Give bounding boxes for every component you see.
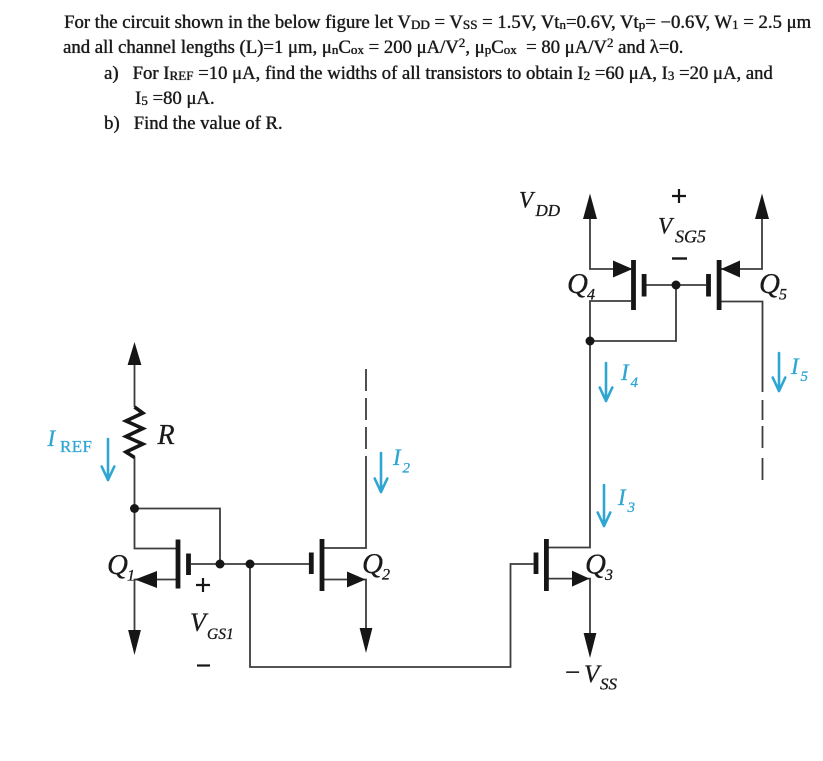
wire Q1 source lead	[135, 580, 179, 633]
svg-text:SS: SS	[600, 675, 618, 694]
transistor Q1 gate bar	[186, 554, 191, 576]
wire Q5 drain lead	[721, 302, 763, 393]
label I2	[392, 445, 411, 477]
transistor Q5 gate bar	[706, 274, 711, 297]
svg-text:I: I	[620, 360, 630, 385]
svg-text:I: I	[392, 445, 402, 470]
transistor Q2 source arrow	[347, 572, 366, 588]
current arrow I5	[773, 353, 786, 391]
wire Q2 drain lead	[322, 456, 366, 548]
wire Q5 source to VDD arrow	[721, 218, 762, 269]
wire resistor bottom to Q1 drain corner	[135, 457, 179, 549]
transistor Q3 source arrow	[572, 571, 590, 587]
label Q4	[567, 268, 595, 304]
svg-text:5: 5	[779, 287, 787, 304]
label IREF	[47, 426, 93, 456]
arrowhead up VDD left	[583, 194, 597, 220]
label R	[157, 420, 175, 451]
svg-text:4: 4	[631, 375, 639, 391]
transistor Q4 gate bar	[642, 274, 647, 297]
label VSG5	[658, 214, 706, 247]
wire Q4 drain lead	[590, 301, 631, 341]
transistor Q3 channel bar	[544, 539, 549, 591]
label Q5	[759, 268, 787, 304]
arrowhead down Q3 source to VSS	[584, 633, 597, 658]
transistor Q2 gate bar	[309, 553, 314, 575]
svg-text:R: R	[157, 420, 175, 451]
label Q3	[585, 549, 613, 585]
resistor R zigzag	[126, 407, 143, 458]
svg-text:1: 1	[127, 568, 135, 585]
arrowhead down Q2 source to VSS	[360, 628, 373, 653]
transistor Q3 gate bar	[534, 553, 539, 575]
svg-text:I: I	[790, 354, 800, 379]
label I3	[617, 485, 635, 516]
svg-text:GS1: GS1	[207, 626, 234, 643]
node Q1 gate junction	[216, 560, 225, 569]
wire dashed stub below Q5	[762, 400, 764, 480]
node below resistor	[130, 504, 139, 513]
node Q4 drain junction	[586, 337, 595, 346]
label I5	[790, 354, 809, 385]
wire IREF branch vertical	[134, 360, 136, 407]
current arrow I3	[598, 485, 611, 526]
transistor Q1 source arrow	[135, 571, 157, 588]
svg-text:I: I	[47, 426, 57, 451]
wire gate bus Q4-Q5	[647, 284, 707, 286]
node Q4-Q5 gate junction	[672, 281, 681, 290]
wire Q4 source to VDD arrow	[590, 218, 631, 269]
minus sign VSG5	[672, 257, 687, 259]
transistor Q2 channel bar	[320, 539, 325, 591]
wire Q1 diode connection drain-to-gate	[135, 509, 221, 565]
arrowhead down Q1 source to VSS	[128, 630, 141, 655]
transistor Q1 channel bar	[176, 540, 181, 589]
wire Q3 drain to Q4 drain	[546, 341, 590, 548]
current arrow I2	[375, 453, 388, 492]
svg-text:2: 2	[403, 461, 411, 477]
svg-text:Q: Q	[759, 268, 780, 300]
svg-text:−: −	[565, 657, 580, 687]
transistor Q5 channel bar	[717, 260, 722, 310]
wire gate bus Q1-Q2	[191, 563, 309, 565]
wire Q4 diode connection drain-to-gate	[590, 285, 676, 341]
svg-text:Q: Q	[567, 268, 588, 300]
svg-text:5: 5	[801, 369, 809, 385]
label Q1	[107, 549, 135, 585]
label VDD	[519, 188, 561, 221]
svg-text:Q: Q	[585, 549, 606, 581]
label VGS1	[190, 608, 234, 643]
svg-text:4: 4	[587, 287, 595, 304]
wire dashed drain stub above Q2	[365, 369, 367, 452]
transistor Q4 source arrow	[613, 261, 633, 278]
svg-text:3: 3	[604, 567, 613, 584]
svg-text:DD: DD	[535, 201, 561, 220]
minus sign VGS1	[197, 664, 210, 666]
wire Q2 source lead	[322, 580, 366, 632]
arrowhead up VDD right	[755, 194, 769, 220]
wire Q3 source lead	[546, 579, 590, 634]
current arrow IREF	[102, 439, 115, 480]
current arrow I4	[600, 363, 613, 401]
label -VSS	[565, 657, 618, 694]
wire gate-return rail to Q3 gate	[250, 564, 534, 667]
svg-text:V: V	[519, 188, 536, 213]
svg-text:Q: Q	[362, 548, 383, 580]
arrowhead up IREF branch	[128, 342, 142, 365]
problem statement text	[64, 12, 811, 34]
svg-text:3: 3	[627, 500, 636, 516]
svg-text:SG5: SG5	[675, 227, 706, 247]
transistor Q4 channel bar	[631, 260, 636, 310]
label I4	[620, 360, 639, 391]
node Q1 gate rail junction	[246, 560, 255, 569]
svg-text:REF: REF	[60, 437, 92, 456]
svg-text:2: 2	[382, 567, 390, 584]
plus sign VGS1	[196, 578, 210, 592]
label Q2	[362, 548, 390, 584]
svg-text:V: V	[658, 214, 675, 239]
plus sign VSG5	[672, 189, 686, 203]
svg-text:Q: Q	[107, 549, 128, 581]
transistor Q5 source arrow	[721, 261, 740, 278]
svg-text:I: I	[617, 485, 627, 510]
